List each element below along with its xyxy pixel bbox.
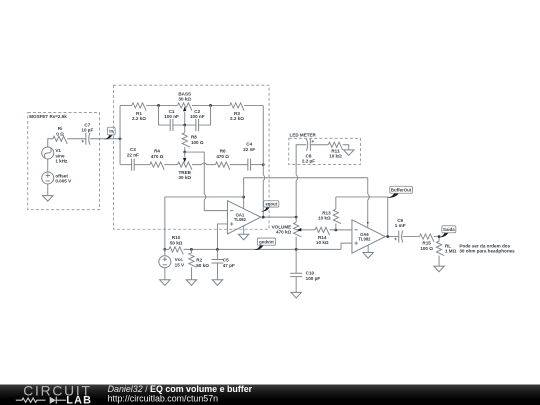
svg-text:eqout: eqout bbox=[265, 202, 277, 207]
resistor Ri bbox=[53, 126, 67, 144]
svg-text:10 kΩ: 10 kΩ bbox=[318, 216, 331, 221]
wire V1 to offset bbox=[47, 159, 49, 172]
resistor R4 bbox=[150, 149, 164, 170]
wire R14 to OA6 minus bbox=[329, 229, 352, 231]
ground below C5 bbox=[212, 263, 222, 285]
svg-text:gndvirt: gndvirt bbox=[259, 239, 274, 244]
resistor R1 bbox=[132, 103, 146, 121]
svg-text:C5: C5 bbox=[223, 258, 229, 263]
node gndvirt bbox=[254, 238, 276, 250]
svg-text:470 Ω: 470 Ω bbox=[216, 154, 229, 159]
wire R3 to corner bbox=[244, 104, 263, 106]
svg-text:http://circuitlab.com/ctun57n: http://circuitlab.com/ctun57n bbox=[108, 394, 219, 404]
op-amp OA6 V- pin and ground bbox=[363, 245, 373, 258]
resistor R3 bbox=[230, 103, 244, 121]
capacitor C5 bbox=[211, 249, 234, 268]
svg-text:10 kΩ: 10 kΩ bbox=[316, 240, 329, 245]
wire R6 to C4 bbox=[230, 164, 248, 166]
wire V1 top bbox=[48, 139, 53, 147]
svg-text:TREB: TREB bbox=[178, 170, 191, 175]
wire C1 to C2 bbox=[173, 124, 196, 126]
resistor R11 bbox=[328, 142, 342, 159]
svg-text:C3: C3 bbox=[130, 147, 136, 152]
resistor R15 bbox=[419, 234, 433, 251]
svg-text:R14: R14 bbox=[318, 235, 327, 240]
svg-text:TL082: TL082 bbox=[358, 236, 371, 241]
wire top row left bbox=[120, 104, 132, 106]
junction feedback bbox=[262, 163, 265, 166]
svg-text:0.005 V: 0.005 V bbox=[55, 179, 72, 184]
wire Vcc rail horizontal bbox=[244, 178, 368, 197]
svg-text:22 nF: 22 nF bbox=[243, 147, 255, 152]
junction dot at in bbox=[119, 137, 122, 140]
source offset bbox=[42, 172, 72, 184]
wire bottom row left bbox=[120, 164, 132, 166]
svg-text:in: in bbox=[109, 129, 113, 134]
wire feedback vertical with hop bbox=[263, 105, 265, 217]
svg-text:R3: R3 bbox=[234, 111, 240, 116]
capacitor C7 bbox=[81, 122, 93, 144]
ground LED meter bbox=[343, 145, 354, 156]
svg-text:30 kΩ: 30 kΩ bbox=[178, 97, 191, 102]
wire wiper row to vertical bbox=[185, 152, 205, 194]
FOOTER bbox=[0, 383, 540, 405]
node Saida bbox=[438, 226, 456, 238]
wire C1 branch left bbox=[159, 105, 171, 125]
junction C5 bbox=[216, 248, 219, 251]
ground below RL bbox=[434, 256, 444, 272]
ground below Vcc bbox=[160, 268, 170, 286]
ground below offset bbox=[43, 184, 53, 201]
node in bbox=[104, 127, 115, 139]
svg-text:RL: RL bbox=[445, 243, 451, 248]
dashed box LED METER bbox=[289, 133, 361, 165]
svg-text:100 Ω: 100 Ω bbox=[420, 246, 433, 251]
svg-text:2.2 kΩ: 2.2 kΩ bbox=[230, 116, 244, 121]
wire OA1 output bbox=[261, 216, 296, 218]
wire Ri to C7 bbox=[67, 138, 86, 140]
wire EQ left vertical bbox=[119, 105, 121, 164]
wire R15 to Saida bbox=[434, 237, 439, 242]
svg-text:30 kΩ: 30 kΩ bbox=[178, 175, 191, 180]
wire R4 to TREB bbox=[164, 164, 177, 166]
svg-text:TL082: TL082 bbox=[234, 217, 247, 222]
wire OA1 minus input bbox=[204, 210, 227, 212]
svg-text:offset: offset bbox=[55, 173, 68, 178]
svg-text:R15: R15 bbox=[422, 241, 431, 246]
dashed box MOSFET source bbox=[28, 112, 100, 209]
svg-text:100 nF: 100 nF bbox=[164, 114, 179, 119]
annotation text bbox=[459, 243, 515, 253]
potentiometer TREB bbox=[178, 152, 192, 180]
svg-text:R13: R13 bbox=[322, 210, 331, 215]
svg-text:1 mF: 1 mF bbox=[395, 223, 406, 228]
svg-text:VOLUME: VOLUME bbox=[272, 224, 292, 229]
wire C9 to R15 bbox=[403, 236, 420, 238]
wire C2 branch right bbox=[199, 105, 211, 125]
source Vcc bbox=[159, 249, 185, 267]
svg-text:BufferOut: BufferOut bbox=[391, 187, 412, 192]
svg-text:LED METER: LED METER bbox=[290, 133, 317, 138]
wire hop vertical over Vplus row bbox=[204, 194, 206, 211]
junction R13 bottom bbox=[334, 228, 337, 231]
svg-text:R2: R2 bbox=[196, 258, 202, 263]
svg-text:C7: C7 bbox=[84, 122, 90, 127]
wire C8 to R11 bbox=[310, 144, 328, 146]
capacitor C10 bbox=[290, 249, 320, 281]
svg-text:470 kΩ: 470 kΩ bbox=[276, 230, 291, 235]
logo diode bbox=[50, 397, 56, 404]
ground below R2 bbox=[186, 267, 196, 285]
resistor R10 bbox=[165, 235, 183, 254]
op-amp OA1 V+ pin bbox=[243, 197, 245, 209]
svg-text:10 kΩ: 10 kΩ bbox=[329, 154, 342, 159]
capacitor C3 bbox=[127, 147, 139, 171]
svg-text:sine: sine bbox=[55, 153, 65, 158]
svg-text:10 µF: 10 µF bbox=[81, 128, 93, 133]
logo resistor squiggle bbox=[16, 398, 46, 402]
junction Vcc bbox=[163, 248, 166, 251]
capacitor C4 bbox=[243, 142, 255, 171]
junction wiper BASS bbox=[183, 124, 186, 127]
svg-text:R6: R6 bbox=[220, 149, 226, 154]
capacitor C1 bbox=[164, 109, 179, 131]
wire eqout tap vertical with hop bbox=[296, 145, 306, 217]
wire C3 to R4 bbox=[134, 164, 150, 166]
capacitor C8 bbox=[302, 139, 315, 164]
svg-text:100 Ω: 100 Ω bbox=[191, 140, 204, 145]
svg-text:Pode ser da ordem dos: Pode ser da ordem dos bbox=[459, 243, 510, 248]
junction volume top bbox=[295, 216, 298, 219]
svg-text:2.2 µF: 2.2 µF bbox=[302, 158, 315, 163]
junction R2 bbox=[190, 248, 193, 251]
resistor R14 bbox=[315, 227, 329, 245]
ground below C10 bbox=[291, 277, 301, 298]
svg-text:47 pF: 47 pF bbox=[223, 263, 235, 268]
junction Saida bbox=[438, 235, 441, 238]
svg-text:R8: R8 bbox=[191, 135, 197, 140]
wire R13 feedback to BufferOut bbox=[336, 197, 388, 237]
potentiometer BASS bbox=[178, 91, 192, 125]
op-amp OA1 bbox=[227, 201, 260, 234]
wire C7 to in node bbox=[90, 138, 120, 140]
svg-text:C4: C4 bbox=[246, 142, 252, 147]
wire BASS to R3 bbox=[192, 104, 230, 106]
resistor R13 bbox=[318, 197, 341, 230]
svg-text:22 nF: 22 nF bbox=[127, 152, 139, 157]
svg-text:1 kHz: 1 kHz bbox=[55, 159, 68, 164]
svg-text:C9: C9 bbox=[397, 218, 403, 223]
junction eqout bbox=[262, 216, 265, 219]
svg-text:2.2 kΩ: 2.2 kΩ bbox=[132, 116, 146, 121]
resistor R2 bbox=[189, 249, 209, 268]
svg-text:V1: V1 bbox=[55, 148, 61, 153]
junction volume bottom bbox=[295, 248, 298, 251]
svg-text:100 pF: 100 pF bbox=[306, 276, 321, 281]
svg-text:1 MΩ: 1 MΩ bbox=[445, 249, 457, 254]
svg-text:0 Ω: 0 Ω bbox=[56, 131, 64, 136]
potentiometer VOLUME bbox=[272, 217, 306, 249]
node eqout bbox=[261, 201, 279, 212]
svg-text:Saida: Saida bbox=[443, 227, 455, 232]
svg-text:470 Ω: 470 Ω bbox=[151, 154, 164, 159]
wire TREB to R6 with hop bbox=[192, 163, 216, 165]
svg-text:100 nF: 100 nF bbox=[190, 114, 205, 119]
resistor RL bbox=[436, 241, 456, 255]
op-amp OA6 V+ pin bbox=[367, 222, 369, 224]
svg-text:MOSFET Rs=2.6k: MOSFET Rs=2.6k bbox=[29, 114, 67, 119]
node BufferOut bbox=[387, 186, 412, 197]
svg-text:R4: R4 bbox=[154, 149, 160, 154]
capacitor C2 bbox=[190, 109, 205, 131]
svg-text:C10: C10 bbox=[306, 271, 315, 276]
wire OA1 plus input bbox=[217, 224, 227, 249]
op-amp OA1 V- pin and ground bbox=[238, 226, 248, 240]
svg-text:30 ohm para headphones: 30 ohm para headphones bbox=[459, 249, 515, 254]
wire R8 to wiper row bbox=[184, 147, 186, 152]
capacitor C9 bbox=[394, 218, 405, 243]
svg-text:50 kΩ: 50 kΩ bbox=[196, 263, 209, 268]
wire volume wiper to R14 bbox=[305, 229, 315, 231]
source V1 bbox=[42, 147, 68, 164]
wire gndvirt row bbox=[183, 248, 341, 250]
wire OA6 output bbox=[385, 236, 399, 238]
junction node A bbox=[157, 104, 160, 107]
svg-text:BASS: BASS bbox=[178, 91, 191, 96]
junction node B bbox=[209, 104, 212, 107]
resistor R6 bbox=[215, 149, 229, 170]
svg-text:15 V: 15 V bbox=[175, 263, 185, 268]
svg-text:50 kΩ: 50 kΩ bbox=[170, 241, 183, 246]
svg-text:R10: R10 bbox=[172, 235, 181, 240]
junction wiper TREB bbox=[183, 151, 186, 154]
wire R1 to BASS bbox=[146, 104, 177, 106]
svg-text:R1: R1 bbox=[136, 111, 142, 116]
op-amp OA6 bbox=[352, 220, 385, 253]
wire C4 to feedback vertical bbox=[251, 164, 264, 166]
resistor R8 bbox=[182, 125, 204, 147]
wire Vplus row bbox=[165, 197, 244, 249]
wire OA6 plus input bbox=[341, 243, 352, 249]
svg-text:LAB: LAB bbox=[66, 395, 92, 405]
dashed box EQ bbox=[113, 85, 269, 229]
junction BufferOut bbox=[386, 235, 389, 238]
wire Vcc rail down to OA6 with hop bbox=[368, 178, 370, 228]
svg-text:Vcc: Vcc bbox=[175, 257, 184, 262]
